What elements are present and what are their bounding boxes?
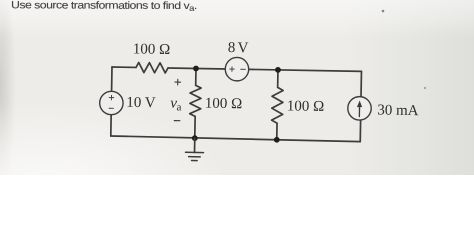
voltage source V1 10V circle — [99, 91, 123, 115]
I1 arrow shaft — [358, 105, 360, 117]
labels — [126, 38, 420, 119]
svg-text:100 Ω: 100 Ω — [205, 96, 243, 113]
svg-text:30 mA: 30 mA — [377, 102, 419, 119]
voltage source V2 8V circle — [225, 57, 249, 81]
wire top-left to R1 — [112, 66, 136, 68]
svg-text:10 V: 10 V — [126, 95, 156, 112]
node A junction dot top of R2 — [193, 66, 199, 72]
junction dot bottom of R3 — [274, 137, 280, 143]
wire right resistor branch lower — [276, 123, 278, 140]
plus sign of va polarity — [175, 79, 181, 85]
wire middle branch lower — [194, 116, 196, 138]
svg-text:8 V: 8 V — [228, 40, 249, 56]
resistor R1 100ohm horizontal — [136, 62, 168, 73]
wire R1 to top-right corner — [168, 68, 361, 71]
svg-text:100 Ω: 100 Ω — [133, 41, 171, 58]
V2 plus sign — [230, 67, 235, 72]
svg-text:100 Ω: 100 Ω — [287, 98, 325, 115]
wire right resistor branch upper — [277, 70, 279, 87]
ground bars — [185, 152, 203, 160]
minus sign of va polarity — [174, 120, 180, 122]
wire rightmost branch — [360, 71, 361, 141]
ground stub — [194, 138, 196, 152]
wire left edge — [111, 67, 112, 136]
title — [11, 0, 197, 12]
V1 minus sign — [109, 107, 113, 109]
svg-text:a: a — [176, 101, 181, 113]
I1 arrowhead — [357, 100, 362, 107]
V2 minus sign — [241, 68, 246, 70]
V1 plus sign — [109, 95, 114, 100]
wire bottom — [111, 136, 360, 142]
wire middle branch upper — [195, 68, 197, 85]
resistor R3 100ohm vertical — [272, 87, 284, 123]
speck top — [382, 10, 385, 13]
speck — [424, 87, 426, 89]
node B junction dot top of R3 — [275, 67, 281, 73]
current source I1 30mA circle — [348, 96, 372, 120]
resistor R2 100ohm vertical (va) — [190, 85, 202, 116]
junction dot bottom of R2 — [192, 135, 198, 141]
